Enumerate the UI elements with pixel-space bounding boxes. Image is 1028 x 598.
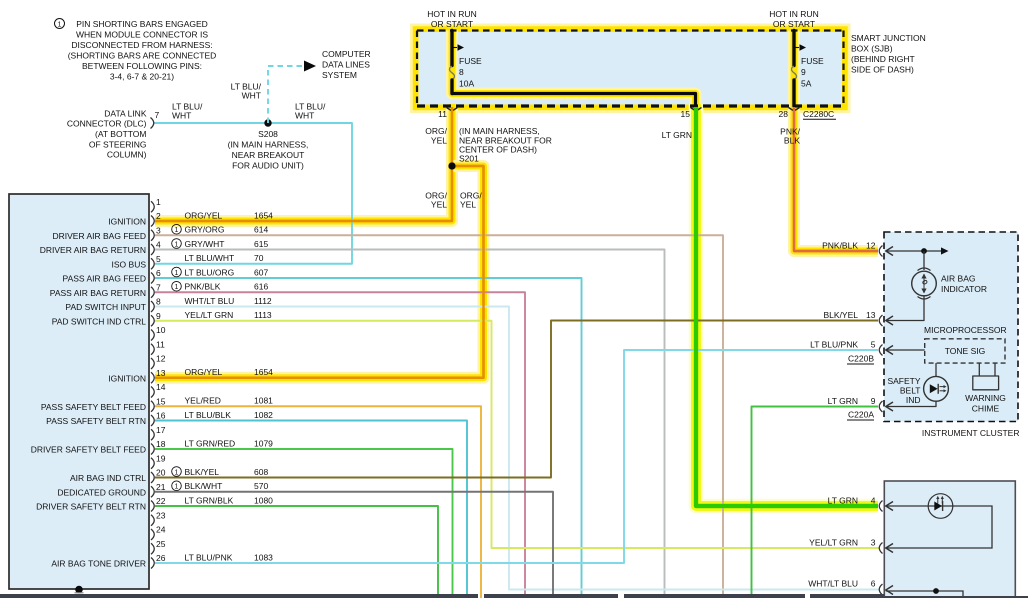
svg-text:20: 20 [156, 468, 166, 478]
module pin 23 [151, 515, 154, 526]
module pin 22 [151, 501, 154, 512]
svg-text:C220B: C220B [848, 354, 874, 364]
svg-text:1: 1 [58, 19, 62, 28]
svg-text:1654: 1654 [254, 367, 273, 377]
svg-text:BELT: BELT [900, 386, 921, 396]
svg-text:1082: 1082 [254, 410, 273, 420]
module pin 8 [151, 301, 154, 312]
svg-text:WARNING: WARNING [965, 393, 1006, 403]
svg-text:1: 1 [175, 469, 179, 476]
svg-text:1: 1 [175, 241, 179, 248]
svg-text:YEL/LT GRN: YEL/LT GRN [185, 310, 234, 320]
svg-text:70: 70 [254, 253, 264, 263]
svg-text:1: 1 [175, 284, 179, 291]
svg-text:BLK/YEL: BLK/YEL [824, 310, 859, 320]
svg-text:AIR BAG TONE DRIVER: AIR BAG TONE DRIVER [51, 559, 146, 569]
svg-text:OR START: OR START [431, 19, 473, 29]
svg-text:LT GRN/BLK: LT GRN/BLK [185, 495, 234, 505]
svg-text:PASS AIR BAG FEED: PASS AIR BAG FEED [63, 274, 146, 284]
wire YEL/LT GRN module pin 9 to lamp box pin 3 [155, 321, 880, 548]
wire GRY/ORG module pin 3 [155, 235, 723, 594]
wire LT BLU/WHT from DLC pin 7 via S208 to module pin 5 [153, 123, 352, 264]
svg-text:16: 16 [156, 411, 166, 421]
svg-text:PAD SWITCH IND CTRL: PAD SWITCH IND CTRL [52, 316, 147, 326]
svg-text:PASS SAFETY BELT FEED: PASS SAFETY BELT FEED [41, 402, 146, 412]
svg-text:5A: 5A [801, 78, 812, 88]
svg-text:12: 12 [156, 354, 166, 364]
svg-text:5: 5 [156, 254, 161, 264]
wire LT BLU/PNK module pin 26 to cluster pin 5 [155, 350, 878, 563]
wire BLK/WHT module pin 21 [155, 492, 553, 594]
module pin 19 [151, 458, 154, 469]
svg-text:HOT IN RUN: HOT IN RUN [769, 9, 818, 19]
module pin 1 [151, 201, 154, 212]
svg-text:SAFETY: SAFETY [887, 376, 920, 386]
wire WHT/LT BLU module pin 8 to lamp box pin 6 [155, 307, 880, 590]
module pin 21 [151, 486, 154, 497]
svg-text:15: 15 [681, 109, 691, 119]
svg-text:1654: 1654 [254, 210, 273, 220]
svg-text:18: 18 [156, 439, 166, 449]
module pin 11 [151, 344, 154, 355]
svg-text:HOT IN RUN: HOT IN RUN [427, 9, 476, 19]
wire core PNK/BLK pin28-cluster (top stroke) [794, 107, 878, 251]
svg-text:ORG/YEL: ORG/YEL [185, 367, 223, 377]
svg-text:LT GRN: LT GRN [662, 130, 692, 140]
warning chime [978, 363, 980, 376]
svg-text:CONNECTOR (DLC): CONNECTOR (DLC) [67, 119, 147, 129]
module pin 16 [151, 415, 154, 426]
wire LT GRN/RED module pin 18 [155, 449, 453, 594]
svg-text:BETWEEN FOLLOWING PINS:: BETWEEN FOLLOWING PINS: [82, 61, 202, 71]
svg-text:6: 6 [156, 268, 161, 278]
svg-text:PNK/BLK: PNK/BLK [822, 240, 858, 250]
module pin 24 [151, 529, 154, 540]
svg-text:PAD SWITCH INPUT: PAD SWITCH INPUT [65, 302, 146, 312]
svg-text:(IN MAIN HARNESS,: (IN MAIN HARNESS, [228, 140, 309, 150]
SJB pin 28 notch [789, 108, 800, 112]
svg-text:17: 17 [156, 425, 166, 435]
svg-text:1: 1 [175, 270, 179, 277]
svg-text:YEL/RED: YEL/RED [185, 396, 221, 406]
svg-text:LT BLU/ORG: LT BLU/ORG [185, 267, 235, 277]
module connector box [9, 194, 149, 589]
svg-text:PASS SAFETY BELT RTN: PASS SAFETY BELT RTN [46, 416, 146, 426]
splice S201 dot re-stroke [448, 162, 455, 169]
glow fuse 8 feed path [452, 31, 696, 107]
wire PNK/BLK SJB pin 28 to cluster pin 12 (highlighted) [794, 104, 878, 251]
fuse 9 [792, 31, 800, 107]
dashed wire S208 to computer data lines [268, 66, 303, 123]
svg-text:NEAR BREAKOUT: NEAR BREAKOUT [232, 150, 305, 160]
SJB interior fill [419, 32, 843, 105]
glow fuse 9 [788, 31, 800, 107]
svg-text:(SHORTING BARS ARE CONNECTED: (SHORTING BARS ARE CONNECTED [68, 51, 217, 61]
svg-text:3-4, 6-7 & 20-21): 3-4, 6-7 & 20-21) [110, 72, 174, 82]
svg-text:614: 614 [254, 225, 268, 235]
svg-text:LT GRN/RED: LT GRN/RED [185, 438, 236, 448]
svg-text:LT BLU/WHT: LT BLU/WHT [185, 253, 235, 263]
svg-text:1112: 1112 [254, 296, 272, 306]
svg-text:DATA LINES: DATA LINES [322, 60, 370, 70]
svg-text:DRIVER SAFETY BELT FEED: DRIVER SAFETY BELT FEED [31, 445, 146, 455]
svg-text:(BEHIND RIGHT: (BEHIND RIGHT [851, 54, 915, 64]
svg-text:FOR AUDIO UNIT): FOR AUDIO UNIT) [232, 161, 304, 171]
svg-text:8: 8 [459, 67, 464, 77]
svg-text:1113: 1113 [254, 310, 272, 320]
splice S201 [448, 162, 455, 169]
svg-text:608: 608 [254, 467, 268, 477]
svg-text:LT BLU/PNK: LT BLU/PNK [810, 339, 858, 349]
svg-text:WHT: WHT [172, 111, 191, 121]
wire PNK/BLK module pin 7 [155, 292, 525, 594]
splice S208 [264, 119, 271, 126]
module pin 9 [151, 315, 154, 326]
wire ORG/YEL S201 branch to module pin 13 (highlighted) [155, 166, 484, 378]
svg-text:PASS AIR BAG RETURN: PASS AIR BAG RETURN [50, 288, 146, 298]
svg-text:YEL/LT GRN: YEL/LT GRN [809, 537, 858, 547]
instrument cluster box [884, 232, 1018, 422]
svg-text:SYSTEM: SYSTEM [322, 70, 357, 80]
svg-text:607: 607 [254, 267, 268, 277]
module pin 12 [151, 358, 154, 369]
svg-text:DATA LINK: DATA LINK [104, 108, 147, 118]
svg-text:7: 7 [155, 110, 160, 120]
fuse 8 feed line to pin 15 [452, 94, 696, 107]
svg-text:1: 1 [175, 484, 179, 491]
svg-text:1081: 1081 [254, 396, 273, 406]
svg-text:9: 9 [801, 67, 806, 77]
svg-text:6: 6 [871, 578, 876, 588]
svg-text:26: 26 [156, 553, 166, 563]
svg-text:LT BLU/PNK: LT BLU/PNK [185, 552, 233, 562]
svg-text:11: 11 [156, 339, 165, 349]
svg-text:23: 23 [156, 510, 166, 520]
svg-text:PIN SHORTING BARS ENGAGED: PIN SHORTING BARS ENGAGED [76, 19, 208, 29]
module pin 6 [151, 273, 154, 284]
svg-text:1: 1 [156, 197, 161, 207]
svg-text:BLK/WHT: BLK/WHT [185, 481, 223, 491]
fuse 8 [450, 31, 458, 94]
svg-text:570: 570 [254, 481, 268, 491]
wire LT GRN cluster pin 9 [752, 407, 879, 595]
svg-text:PNK/BLK: PNK/BLK [185, 282, 221, 292]
svg-text:IGNITION: IGNITION [108, 217, 146, 227]
svg-text:SMART JUNCTION: SMART JUNCTION [851, 33, 926, 43]
svg-text:INSTRUMENT CLUSTER: INSTRUMENT CLUSTER [922, 428, 1020, 438]
module pin 4 [151, 244, 154, 255]
module pin 13 [151, 372, 154, 383]
svg-text:DEDICATED GROUND: DEDICATED GROUND [57, 487, 146, 497]
svg-text:IGNITION: IGNITION [108, 373, 146, 383]
module pin 25 [151, 543, 154, 554]
svg-text:9: 9 [156, 311, 161, 321]
svg-text:615: 615 [254, 239, 268, 249]
lamp module box (bottom right) [884, 481, 1015, 598]
LED indicator in lamp box [928, 494, 953, 519]
svg-text:(AT BOTTOM: (AT BOTTOM [95, 129, 146, 139]
svg-text:WHEN MODULE CONNECTOR IS: WHEN MODULE CONNECTOR IS [76, 30, 208, 40]
wire core ORG/YEL S201-pin13 (top stroke) [155, 166, 484, 378]
module pin 3 [151, 230, 154, 241]
svg-text:616: 616 [254, 282, 268, 292]
svg-text:WHT/LT BLU: WHT/LT BLU [808, 578, 858, 588]
SJB pin 15 notch [691, 108, 702, 112]
wire LT BLU/BLK module pin 16 [155, 421, 467, 595]
svg-text:1: 1 [175, 227, 179, 234]
svg-text:10: 10 [156, 325, 166, 335]
svg-text:5: 5 [871, 339, 876, 349]
note circled 1 [55, 19, 65, 29]
SJB smart junction box dashed border [417, 31, 844, 107]
module pin 20 [151, 472, 154, 483]
svg-text:WHT: WHT [242, 91, 261, 101]
wire ORG/YEL SJB pin 11 to S201 to module pin 2 (highlighted) [155, 104, 452, 221]
svg-text:AIR BAG IND CTRL: AIR BAG IND CTRL [70, 473, 146, 483]
svg-text:15: 15 [156, 396, 166, 406]
svg-text:10A: 10A [459, 78, 474, 88]
wire GRY/WHT module pin 4 [155, 250, 665, 595]
svg-text:9: 9 [871, 396, 876, 406]
svg-text:DRIVER SAFETY BELT RTN: DRIVER SAFETY BELT RTN [36, 502, 146, 512]
svg-text:DRIVER AIR BAG FEED: DRIVER AIR BAG FEED [52, 231, 146, 241]
svg-text:YEL: YEL [431, 200, 447, 210]
svg-text:7: 7 [156, 282, 161, 292]
svg-text:MICROPROCESSOR: MICROPROCESSOR [924, 325, 1007, 335]
module pin 18 [151, 444, 154, 455]
svg-text:3: 3 [156, 225, 161, 235]
svg-text:WHT/LT BLU: WHT/LT BLU [185, 296, 235, 306]
svg-text:DISCONNECTED FROM HARNESS:: DISCONNECTED FROM HARNESS: [71, 40, 212, 50]
svg-text:1080: 1080 [254, 495, 273, 505]
module pin 15 [151, 401, 154, 412]
svg-text:SIDE OF DASH): SIDE OF DASH) [851, 65, 914, 75]
svg-text:19: 19 [156, 453, 166, 463]
module pin 5 [151, 258, 154, 269]
svg-text:28: 28 [779, 109, 789, 119]
tone sig dashed box [925, 339, 1005, 363]
module pin 14 [151, 387, 154, 398]
bottom cut-off connector row [0, 594, 478, 598]
wire BLK/YEL module pin 20 to cluster pin 13 [155, 321, 878, 478]
svg-text:BLK: BLK [784, 136, 800, 146]
svg-text:21: 21 [156, 482, 166, 492]
module pin 7 [151, 287, 154, 298]
wire core LT GRN pin15-lampbox (top stroke) [696, 107, 878, 506]
cluster pin 9 LT GRN [886, 401, 936, 406]
wire YEL/RED module pin 15 [155, 406, 481, 598]
svg-text:COLUMN): COLUMN) [107, 150, 147, 160]
svg-text:AIR BAG: AIR BAG [941, 274, 975, 284]
svg-text:ORG/: ORG/ [425, 126, 447, 136]
svg-text:DRIVER AIR BAG RETURN: DRIVER AIR BAG RETURN [40, 245, 146, 255]
svg-text:24: 24 [156, 525, 166, 535]
svg-text:GRY/ORG: GRY/ORG [185, 225, 225, 235]
svg-text:YEL: YEL [460, 200, 476, 210]
highlight glow around SJB box border [417, 31, 844, 107]
ground dot below module box [75, 586, 83, 594]
svg-text:1083: 1083 [254, 552, 273, 562]
svg-text:14: 14 [156, 382, 166, 392]
svg-text:S201: S201 [459, 154, 479, 164]
svg-text:LT GRN: LT GRN [828, 496, 858, 506]
svg-text:13: 13 [866, 310, 876, 320]
svg-text:8: 8 [156, 297, 161, 307]
module pin 17 [151, 429, 154, 440]
svg-text:4: 4 [156, 240, 161, 250]
svg-text:4: 4 [871, 496, 876, 506]
safety belt indicator [935, 363, 937, 376]
svg-text:COMPUTER: COMPUTER [322, 49, 371, 59]
svg-text:11: 11 [438, 109, 447, 119]
svg-text:OF STEERING: OF STEERING [89, 139, 147, 149]
wire LT GRN SJB pin 15 to lamp box pin 4 (highlighted) [696, 104, 878, 506]
svg-text:S208: S208 [258, 129, 278, 139]
svg-text:25: 25 [156, 539, 166, 549]
svg-text:INDICATOR: INDICATOR [941, 284, 987, 294]
svg-text:IND: IND [906, 395, 921, 405]
svg-text:ORG/YEL: ORG/YEL [185, 210, 223, 220]
svg-text:CHIME: CHIME [972, 404, 1000, 414]
module pin 2 [151, 216, 154, 227]
arrow to computer data lines system [304, 61, 316, 72]
svg-text:WHT: WHT [295, 111, 314, 121]
svg-text:ISO BUS: ISO BUS [112, 259, 147, 269]
module pin 10 [151, 330, 154, 341]
svg-text:FUSE: FUSE [459, 56, 482, 66]
svg-text:TONE SIG: TONE SIG [945, 346, 985, 356]
wire core ORG/YEL pin11-S201-pin2 (top stroke) [155, 107, 452, 221]
svg-text:1079: 1079 [254, 438, 273, 448]
svg-text:OR START: OR START [773, 19, 815, 29]
svg-text:22: 22 [156, 496, 166, 506]
svg-text:FUSE: FUSE [801, 56, 824, 66]
svg-text:BOX (SJB): BOX (SJB) [851, 44, 893, 54]
module pin 26 [151, 558, 154, 569]
svg-text:C2280C: C2280C [803, 109, 834, 119]
svg-text:C220A: C220A [848, 410, 874, 420]
svg-text:LT GRN: LT GRN [828, 396, 858, 406]
svg-text:BLK/YEL: BLK/YEL [185, 467, 220, 477]
svg-text:13: 13 [156, 368, 166, 378]
svg-text:LT BLU/BLK: LT BLU/BLK [185, 410, 232, 420]
air bag indicator lamp U-cluster [923, 251, 925, 270]
svg-text:YEL: YEL [431, 136, 447, 146]
wire LT BLU/ORG module pin 6 [155, 278, 582, 594]
svg-text:3: 3 [871, 537, 876, 547]
svg-text:2: 2 [156, 211, 161, 221]
SJB pin 11 notch [447, 108, 458, 112]
wire LT GRN/BLK module pin 22 [155, 506, 438, 594]
svg-text:12: 12 [866, 240, 876, 250]
svg-text:GRY/WHT: GRY/WHT [185, 239, 225, 249]
